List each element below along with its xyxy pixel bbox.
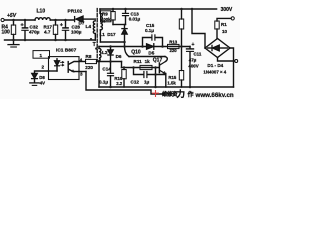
inductor L10 — [35, 18, 50, 20]
capacitor C11 — [189, 47, 191, 49]
capacitor C15 loop — [143, 38, 152, 47]
wire opto pin3 return rail — [86, 72, 164, 95]
svg-text:D7: D7 — [79, 21, 85, 26]
svg-text:D1 - D4: D1 - D4 — [207, 63, 223, 68]
svg-text:+: + — [21, 22, 24, 28]
transistor inside IC1 — [67, 62, 69, 73]
zener D17 — [124, 25, 126, 29]
svg-text:L4: L4 — [86, 24, 92, 30]
svg-text:C14: C14 — [102, 67, 111, 72]
transistor Q17 — [158, 63, 160, 73]
watermark — [152, 89, 234, 99]
wire B — [129, 56, 165, 58]
svg-text:D8: D8 — [39, 75, 45, 80]
svg-text:D6: D6 — [116, 54, 122, 59]
wire clamp jog — [113, 24, 126, 26]
wire bridge feed — [192, 9, 205, 48]
diode D5 — [147, 44, 154, 49]
box R9 label — [101, 11, 112, 22]
capacitor C14 — [108, 72, 114, 74]
node AC terminal bottom — [235, 60, 238, 63]
svg-text:300V: 300V — [221, 7, 233, 13]
wire secondary ground rail — [5, 39, 96, 41]
transformer winding L1 — [99, 9, 101, 13]
node polarity dots — [90, 38, 92, 40]
LED inside IC1 — [56, 59, 58, 61]
svg-text:2: 2 — [42, 65, 45, 70]
ground — [13, 40, 15, 44]
svg-text:47μ: 47μ — [189, 58, 197, 63]
resistor R1 — [215, 21, 219, 29]
wire opto pin3 — [79, 71, 86, 73]
svg-text:IC1 B807: IC1 B807 — [56, 48, 77, 54]
resistor R9 — [112, 9, 114, 12]
bridge rectifier D1-D4 — [205, 39, 230, 58]
svg-text:+: + — [60, 22, 63, 28]
LED arrows — [61, 62, 64, 64]
resistor R10 — [123, 68, 125, 70]
svg-text:1k: 1k — [145, 59, 151, 64]
wire bridge bottom to AC terminal — [218, 58, 235, 62]
svg-text:0.1μ: 0.1μ — [99, 80, 108, 85]
svg-text:400V: 400V — [188, 64, 198, 69]
svg-text:L2: L2 — [102, 50, 108, 56]
svg-text:470μ: 470μ — [29, 30, 40, 35]
wire bridge right to primary rail — [230, 48, 234, 87]
svg-text:D5: D5 — [148, 50, 154, 55]
wire feedback (L2 top) — [99, 46, 190, 48]
resistor R17 — [55, 20, 57, 25]
capacitor C32 — [24, 20, 26, 27]
svg-text:0.1μ: 0.1μ — [145, 28, 154, 33]
wire primary ground rail — [99, 86, 234, 88]
svg-text:100: 100 — [2, 29, 11, 35]
resistor R11 — [140, 65, 152, 69]
svg-text:100μ: 100μ — [71, 30, 82, 35]
svg-text:力: 力 — [177, 89, 186, 99]
svg-text:4V: 4V — [40, 81, 45, 86]
wire C — [122, 67, 159, 69]
svg-text:作: 作 — [188, 91, 194, 99]
transformer winding L2 — [98, 47, 100, 49]
resistor R8 — [86, 59, 97, 63]
transformer core — [96, 9, 98, 62]
svg-text:3: 3 — [80, 71, 83, 76]
svg-text:Q17: Q17 — [153, 58, 163, 64]
svg-text:100k: 100k — [101, 17, 111, 22]
svg-text:R15: R15 — [168, 75, 176, 80]
svg-text:4.7: 4.7 — [44, 30, 51, 35]
wire curve to Q17 collector line — [125, 47, 130, 57]
resistor R13 — [168, 44, 180, 48]
junction dots — [12, 8, 193, 89]
wire L4 bottom to ground rail — [94, 34, 96, 40]
svg-text:0.01μ: 0.01μ — [129, 16, 141, 21]
svg-text:1: 1 — [40, 53, 43, 58]
svg-text:www.66kv.cn: www.66kv.cn — [195, 92, 234, 99]
svg-text:R1: R1 — [221, 22, 227, 27]
svg-text:C12: C12 — [131, 80, 140, 85]
svg-text:C11: C11 — [194, 51, 202, 56]
wire C12 branch — [134, 68, 144, 75]
wire bend to wire C — [121, 62, 123, 68]
labels — [2, 7, 233, 86]
zener D8 — [32, 73, 37, 78]
capacitor C28 — [65, 20, 67, 27]
wire — [50, 19, 74, 21]
wire drain node — [100, 41, 124, 43]
transformer winding L4 — [93, 21, 95, 34]
svg-text:10: 10 — [222, 29, 228, 34]
capacitor C12 — [143, 72, 145, 78]
resistor R4 — [13, 20, 15, 25]
box pin1 — [33, 51, 50, 59]
svg-text:+5V: +5V — [7, 13, 17, 19]
ground — [30, 82, 39, 84]
svg-text:R8: R8 — [86, 54, 92, 59]
svg-text:220: 220 — [85, 65, 93, 70]
wire top +300V rail — [100, 8, 217, 10]
wire +5V rail — [4, 19, 35, 21]
svg-text:+: + — [192, 42, 195, 48]
wire R8 (opto pin4) — [79, 61, 86, 63]
svg-text:PR102: PR102 — [68, 9, 83, 15]
resistor R15 chain V2 — [181, 47, 183, 71]
wire bridge top to R1 — [216, 29, 218, 39]
resistor chain V1 — [181, 9, 183, 19]
op-amp IC1 optocoupler box — [49, 57, 80, 80]
svg-text:220: 220 — [170, 48, 178, 53]
svg-text:T: T — [93, 42, 96, 48]
wire opto pin2 — [35, 71, 49, 73]
svg-text:L1: L1 — [100, 32, 106, 37]
capacitor C13 — [125, 9, 127, 13]
svg-text:Q10: Q10 — [131, 50, 141, 56]
zener D6 — [110, 47, 112, 51]
svg-text:R13: R13 — [169, 40, 177, 45]
node AC terminal top — [231, 17, 234, 20]
svg-text:4: 4 — [80, 58, 83, 63]
node +5V terminal — [1, 18, 4, 21]
svg-text:D17: D17 — [107, 32, 116, 37]
svg-text:R11: R11 — [134, 59, 143, 64]
svg-text:1.5k: 1.5k — [167, 81, 176, 86]
svg-text:1μ: 1μ — [144, 80, 150, 85]
svg-text:L10: L10 — [37, 9, 46, 15]
svg-text:2.2: 2.2 — [116, 81, 123, 86]
diode D7 (PR102) — [74, 17, 76, 22]
svg-text:1N4007 × 4: 1N4007 × 4 — [203, 70, 226, 75]
